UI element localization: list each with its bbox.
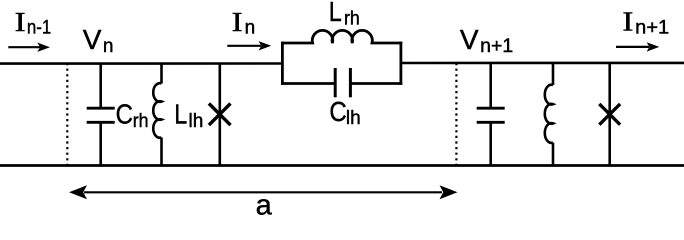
svg-text:lh: lh: [189, 111, 204, 132]
label Lrh: [329, 0, 360, 30]
dimension arrow a: [69, 185, 458, 199]
wire bottom line: [0, 164, 684, 167]
inductor Llh (left shunt): [153, 63, 161, 165]
inductor (right shunt): [545, 63, 553, 166]
label V n+1: [460, 24, 513, 57]
box left edge: [281, 42, 284, 85]
svg-text:V: V: [460, 24, 479, 55]
svg-text:I: I: [232, 7, 243, 37]
Josephson junction X (right shunt): [599, 63, 620, 166]
label I n+1: [622, 7, 669, 39]
capacitor Clh plates: [334, 68, 337, 97]
svg-text:rh: rh: [133, 111, 149, 132]
current arrow I n-1: [8, 43, 50, 52]
label Clh: [329, 96, 360, 129]
svg-text:lh: lh: [346, 108, 361, 129]
Josephson junction X (left shunt): [209, 63, 231, 165]
series LC tank box: [281, 30, 402, 97]
node left cell boundary (dotted): [66, 63, 68, 166]
wire top line right segment: [400, 62, 684, 65]
box right edge: [399, 42, 402, 85]
current arrow I n: [227, 41, 271, 50]
svg-text:C: C: [116, 99, 133, 130]
current arrow I n+1: [616, 42, 659, 51]
svg-text:n: n: [245, 17, 256, 38]
svg-text:I: I: [622, 7, 633, 37]
svg-text:I: I: [15, 7, 26, 37]
wire top line left segment: [0, 62, 283, 65]
capacitor (right shunt): [477, 63, 505, 166]
svg-text:L: L: [329, 0, 342, 27]
capacitor Crh (left shunt): [87, 63, 115, 165]
label Llh: [174, 99, 203, 132]
node right cell boundary (dotted): [455, 63, 457, 166]
svg-text:rh: rh: [344, 9, 360, 30]
svg-text:n+1: n+1: [480, 36, 513, 57]
svg-text:V: V: [83, 24, 102, 55]
label I n-1: [15, 7, 52, 39]
box top edge with inductor Lrh: [281, 30, 402, 43]
svg-text:a: a: [256, 190, 273, 216]
svg-text:C: C: [329, 96, 346, 127]
label Vn: [83, 24, 114, 57]
svg-text:n+1: n+1: [635, 17, 669, 38]
label Crh: [116, 99, 149, 132]
svg-text:L: L: [174, 99, 187, 130]
svg-text:n-1: n-1: [27, 17, 51, 38]
svg-text:n: n: [103, 36, 114, 57]
label I n: [232, 7, 256, 39]
box bottom edge with capacitor Clh: [281, 82, 335, 85]
